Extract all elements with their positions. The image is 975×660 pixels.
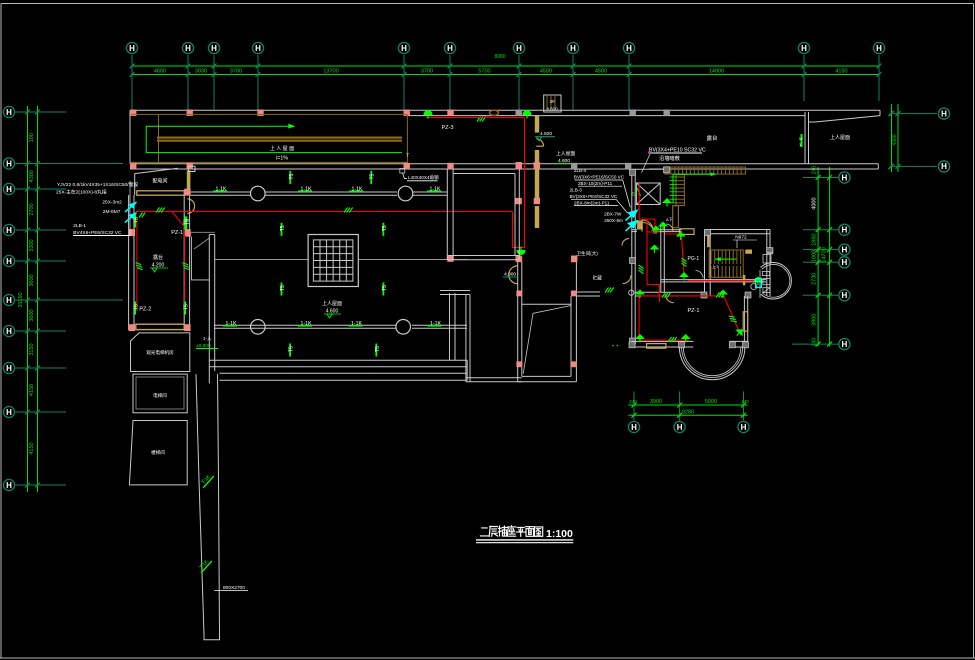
door arc hall (623, 275, 631, 283)
svg-text:14700: 14700 (822, 247, 828, 262)
round column 2 (398, 186, 413, 201)
svg-text:4600: 4600 (154, 69, 166, 75)
rb sockets (635, 198, 763, 343)
teal line to bubble (891, 113, 937, 115)
svg-text:电梯间: 电梯间 (153, 392, 167, 399)
svg-text:H: H (570, 44, 576, 53)
svg-text:3600: 3600 (29, 309, 35, 321)
svg-text:4150: 4150 (29, 384, 35, 396)
balcony railing bar (157, 137, 402, 139)
svg-text:露台: 露台 (706, 134, 718, 142)
right grid line b (829, 167, 831, 346)
svg-text:A下: A下 (666, 217, 673, 222)
svg-text:140: 140 (741, 399, 749, 404)
svg-text:H: H (842, 173, 848, 182)
svg-text:3150: 3150 (29, 343, 35, 355)
lower colonnade line (214, 325, 467, 328)
svg-text:5: 5 (632, 192, 635, 198)
svg-text:4150: 4150 (29, 442, 35, 454)
svg-text:贮藏: 贮藏 (593, 275, 603, 282)
terrace sockets (134, 215, 190, 315)
balcony outline (131, 114, 407, 163)
bay arc bottom (679, 347, 745, 380)
svg-text:2730: 2730 (812, 273, 818, 285)
rb wire 8 (524, 116, 526, 118)
svg-text:2700: 2700 (29, 203, 35, 215)
columns band 2 (130, 163, 631, 169)
svg-text:7: 7 (406, 153, 409, 159)
balcony wire green (146, 125, 402, 153)
ramp label 1 (199, 472, 214, 488)
svg-text:H: H (6, 226, 12, 235)
corner socket (185, 216, 191, 229)
svg-text:H: H (741, 423, 747, 432)
svg-text:T5: T5 (134, 217, 140, 223)
shaft box 3# (544, 95, 561, 112)
right dim values (812, 166, 828, 347)
bottom dim values (629, 399, 749, 416)
leader box (73, 181, 130, 236)
rb door arc 1 (666, 224, 673, 231)
dimension line top-2 (132, 74, 879, 76)
svg-text:4300: 4300 (29, 170, 35, 182)
ramp walls (196, 374, 220, 640)
teal line to bubble 2 (891, 165, 937, 167)
svg-text:1-入: 1-入 (203, 336, 212, 341)
svg-text:2BX-10(2m)-P11: 2BX-10(2m)-P11 (578, 181, 613, 186)
svg-text:250X-5m: 250X-5m (604, 218, 623, 223)
cyan feeder arrows (626, 211, 638, 232)
svg-text:H: H (842, 291, 848, 300)
columns top band (130, 110, 670, 116)
svg-text:H: H (6, 296, 12, 305)
terrace bottom sill (136, 324, 184, 329)
svg-text:2BX-7W: 2BX-7W (604, 212, 622, 217)
svg-text:4500: 4500 (540, 69, 552, 75)
svg-text:13700: 13700 (323, 69, 338, 75)
svg-text:4500: 4500 (595, 69, 607, 75)
svg-text:L40X40X4角钢: L40X40X4角钢 (408, 174, 439, 181)
svg-text:上人屋面: 上人屋面 (556, 150, 575, 157)
leader lines labels (571, 180, 630, 213)
svg-text:上7: 上7 (712, 263, 719, 269)
svg-text:H: H (6, 159, 12, 168)
left grid horizontal lines (16, 110, 124, 488)
stair vertical run (676, 175, 684, 206)
svg-text:4.920: 4.920 (540, 131, 552, 137)
socket mid (517, 247, 526, 256)
svg-text:1860: 1860 (812, 234, 818, 246)
svg-text:2M-8M7: 2M-8M7 (103, 209, 121, 215)
svg-text:H: H (6, 327, 12, 336)
svg-text:3900: 3900 (650, 399, 662, 405)
magenta dot (648, 151, 650, 153)
title text (480, 528, 488, 536)
svg-text:PG-1: PG-1 (688, 256, 700, 262)
svg-text:T5: T5 (370, 173, 376, 179)
left dim values (18, 133, 35, 454)
rb door arc 2 (696, 271, 704, 279)
svg-text:卫生间(大): 卫生间(大) (576, 250, 598, 257)
wall band 2 (130, 164, 878, 169)
bay circle right (761, 262, 792, 299)
svg-text:H: H (677, 423, 683, 432)
rb wire 3 (658, 285, 660, 303)
center room columns (516, 256, 576, 367)
center room walls (440, 291, 522, 382)
svg-text:H: H (842, 226, 848, 235)
rb door jamb tan (637, 221, 643, 230)
svg-text:3700: 3700 (230, 69, 242, 75)
main room mid line (215, 259, 308, 261)
corridor labels (213, 186, 441, 192)
svg-text:3#: 3# (549, 99, 555, 104)
svg-text:3300: 3300 (29, 239, 35, 251)
svg-text:上 人 屋 面: 上 人 屋 面 (270, 145, 294, 152)
rb wire 1 (639, 184, 655, 228)
svg-text:240: 240 (812, 166, 818, 175)
grid bubble right H2 (938, 161, 949, 172)
terrace walls (129, 195, 190, 330)
rb wire 7 (639, 296, 689, 340)
svg-text:H: H (631, 423, 637, 432)
svg-text:i=1%: i=1% (276, 156, 288, 162)
rb wire 6 (639, 296, 741, 336)
corridor parapet (191, 192, 448, 195)
rb outer walls (632, 169, 664, 341)
svg-text:H: H (447, 44, 453, 53)
grid bubbles (left column) (3, 106, 14, 490)
svg-text:H: H (516, 44, 522, 53)
rb door arc brown (622, 239, 629, 246)
rb wire 4 (665, 234, 685, 275)
svg-text:2LB-3: 2LB-3 (570, 188, 583, 193)
svg-text:T5: T5 (375, 346, 381, 352)
rb tan bit (707, 235, 710, 247)
svg-text:T5: T5 (184, 304, 190, 310)
svg-text:H: H (876, 44, 882, 53)
title underline (476, 539, 573, 541)
svg-text:H: H (941, 109, 947, 118)
svg-text:H: H (6, 408, 12, 417)
wire main horizontal (136, 211, 513, 213)
svg-text:H: H (6, 108, 12, 117)
bottom dim line 1 (628, 404, 747, 406)
wire right vertical (513, 118, 525, 248)
svg-text:上人屋面: 上人屋面 (322, 300, 342, 307)
svg-text:PZ-1: PZ-1 (171, 230, 183, 236)
wire terrace diag (172, 212, 185, 227)
stair landing sill (680, 229, 695, 235)
mid room walls (447, 169, 519, 260)
lower colonnade labels (223, 321, 442, 327)
grid bubble top-right H (938, 108, 949, 119)
svg-text:9280: 9280 (682, 410, 694, 416)
center big room (518, 256, 577, 381)
main room left wall (209, 235, 214, 384)
cyan box (756, 278, 762, 287)
small box col (189, 166, 196, 171)
svg-text:W: W (799, 136, 803, 141)
svg-text:4150: 4150 (835, 69, 847, 75)
svg-text:3600: 3600 (29, 274, 35, 286)
center room diag (522, 304, 571, 373)
main room corner stub (191, 231, 215, 233)
left grid line b (37, 106, 39, 492)
elevator shaft (636, 183, 660, 205)
stair door arc (536, 139, 543, 146)
svg-text:H: H (941, 162, 947, 171)
svg-text:H: H (185, 44, 191, 53)
room B inner (136, 377, 184, 409)
svg-text:H: H (401, 44, 407, 53)
room peidian sill (137, 191, 184, 195)
svg-text:YJV22 0.6/1kV4X35+1X16/SC50/埋设: YJV22 0.6/1kV4X35+1X16/SC50/埋设 (57, 181, 138, 188)
svg-text:5000: 5000 (705, 399, 717, 405)
corridor label small (400, 169, 405, 174)
double door arcs (509, 266, 518, 284)
cyan arrow 1 (128, 202, 137, 209)
rb wire 5 (688, 280, 760, 282)
svg-text:3900: 3900 (812, 314, 818, 326)
svg-text:BV(3X6+PE6/SC32 VC: BV(3X6+PE6/SC32 VC (570, 194, 618, 199)
dimension ticks (top) (130, 64, 882, 78)
rb wire 1b (647, 219, 660, 285)
svg-text:配电间: 配电间 (152, 178, 167, 185)
svg-text:H: H (255, 44, 261, 53)
room B (133, 374, 187, 413)
svg-text:BV(3X6+PE16/SC50 VC: BV(3X6+PE16/SC50 VC (574, 175, 625, 180)
rb wire 2 (647, 231, 660, 233)
right grid line a (817, 167, 819, 346)
dimension line top-1 (132, 65, 879, 67)
svg-text:H: H (6, 185, 12, 194)
svg-text:H: H (842, 340, 848, 349)
svg-text:100: 100 (29, 133, 35, 142)
cyan arrow 2 (128, 213, 137, 220)
grid bubbles (right column) (839, 172, 850, 350)
svg-text:T5: T5 (134, 304, 140, 310)
svg-text:1000: 1000 (812, 250, 818, 262)
columns mid (447, 162, 577, 262)
skylight grid (313, 240, 353, 281)
svg-text:上人屋面: 上人屋面 (830, 134, 850, 141)
svg-text:4000: 4000 (812, 197, 818, 209)
svg-text:H: H (801, 44, 807, 53)
right mini dim lines (892, 104, 899, 172)
rb door arc tan (643, 223, 654, 234)
bath tan bits (743, 275, 745, 285)
tiny green dots (612, 345, 614, 347)
door arc peidian (187, 199, 194, 214)
bottom dim line 2 (628, 414, 747, 416)
bath fixtures (751, 255, 771, 299)
lobby walls (191, 237, 209, 280)
svg-text:8080: 8080 (494, 54, 505, 60)
rb bottom sill (647, 344, 666, 349)
terrace slash marks (136, 213, 190, 272)
svg-text:露台: 露台 (153, 254, 163, 261)
stair top band (665, 167, 746, 174)
skylight outer (308, 235, 358, 287)
svg-text:T5: T5 (289, 346, 295, 352)
svg-text:PZ-2: PZ-2 (139, 307, 151, 313)
svg-text:PZ-1: PZ-1 (688, 308, 700, 314)
svg-text:T5: T5 (280, 225, 286, 231)
svg-text:240: 240 (629, 399, 637, 404)
main bottom wall (209, 360, 467, 367)
rb inner walls (632, 226, 770, 296)
svg-text:H: H (842, 258, 848, 267)
wire terrace left (136, 217, 138, 311)
corner pink column (186, 232, 191, 237)
rb door arc tan 2 (666, 294, 674, 302)
rb slashes (605, 258, 737, 342)
stair green arrow (673, 174, 716, 203)
slope mark (801, 134, 803, 147)
svg-text:沿墙暗敷: 沿墙暗敷 (659, 154, 681, 162)
room door leaf brown (641, 220, 643, 232)
svg-text:14800: 14800 (709, 69, 724, 75)
svg-text:5700: 5700 (478, 69, 490, 75)
hall wall right (576, 292, 600, 296)
wire top red (426, 117, 525, 119)
svg-text:25X-主在2(100X)-8丸接: 25X-主在2(100X)-8丸接 (56, 189, 107, 196)
wire main slashes (156, 208, 165, 213)
svg-text:240: 240 (812, 338, 818, 347)
svg-text:楼梯间: 楼梯间 (151, 449, 165, 456)
rb stair room col (767, 248, 773, 253)
stair wide band (673, 206, 679, 228)
rb grey columns (630, 167, 773, 344)
rb bottom columns (629, 342, 749, 348)
olive wall center (535, 116, 539, 228)
svg-text:T5: T5 (289, 173, 295, 179)
svg-text:H: H (6, 364, 12, 373)
wall top band (130, 110, 880, 164)
svg-text:T5: T5 (184, 219, 190, 225)
svg-text:3030: 3030 (195, 69, 207, 75)
round column 3 (250, 320, 265, 335)
svg-text:2LB-1: 2LB-1 (73, 223, 86, 229)
stair 2 arrow (715, 258, 737, 260)
svg-text:H: H (6, 481, 12, 490)
svg-text:3700: 3700 (421, 69, 433, 75)
svg-text:观光电梯机房: 观光电梯机房 (146, 349, 174, 356)
ramp label 2 (197, 557, 212, 573)
wire terrace right (184, 227, 186, 311)
svg-text:31150: 31150 (18, 293, 24, 308)
rb pivot circle (629, 290, 634, 295)
svg-text:T5: T5 (280, 285, 286, 291)
main bottom wall 2 (220, 360, 468, 380)
room peidian outline (135, 168, 178, 195)
dimension values (top) (154, 54, 848, 75)
bottom grid lines (632, 391, 747, 420)
svg-text:H: H (211, 44, 217, 53)
right grid horizontal lines (792, 175, 840, 347)
main room sockets (280, 223, 388, 357)
corridor socket a (289, 171, 295, 184)
svg-text:H: H (129, 44, 135, 53)
left grid line a (27, 106, 29, 492)
svg-text:25X-3m2: 25X-3m2 (102, 199, 122, 205)
room A (131, 333, 190, 372)
svg-text:PZ-3: PZ-3 (442, 125, 454, 131)
corridor socket b (370, 171, 376, 184)
svg-text:2BX-8m(2m)-P11: 2BX-8m(2m)-P11 (574, 201, 610, 206)
socket top b (523, 110, 532, 119)
svg-text:T5: T5 (382, 285, 388, 291)
terrace columns (129, 189, 191, 331)
rb bottom walls (632, 296, 748, 347)
socket top a (424, 110, 433, 119)
svg-text:4300: 4300 (892, 134, 898, 145)
grid bubbles (top row) (126, 42, 884, 53)
room C (129, 421, 187, 485)
grid column lines (top) (132, 55, 879, 110)
stair 2 (709, 250, 743, 277)
svg-text:H: H (842, 245, 848, 254)
bottom grid bubbles (628, 421, 749, 432)
round column 1 (250, 186, 265, 201)
svg-text:T5: T5 (382, 225, 388, 231)
room peidian door wall (187, 170, 191, 190)
svg-text:2LB-4: 2LB-4 (574, 168, 587, 173)
svg-text:4.600: 4.600 (546, 107, 558, 112)
round column 4 (396, 320, 411, 335)
svg-text:H: H (6, 257, 12, 266)
svg-text:1:100: 1:100 (546, 528, 573, 540)
svg-text:H: H (626, 44, 632, 53)
